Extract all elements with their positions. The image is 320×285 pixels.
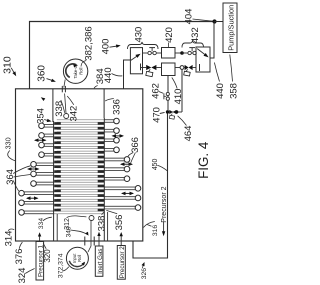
svg-text:Precursor 2: Precursor 2 xyxy=(161,186,168,222)
svg-text:340: 340 xyxy=(65,226,72,237)
svg-text:342: 342 xyxy=(68,106,79,122)
svg-text:430: 430 xyxy=(133,27,144,43)
svg-text:440: 440 xyxy=(215,83,226,99)
svg-text:450: 450 xyxy=(152,158,159,170)
svg-text:372,374: 372,374 xyxy=(57,253,64,278)
svg-text:316: 316 xyxy=(152,225,159,237)
svg-text:Precursor 2: Precursor 2 xyxy=(119,246,126,279)
svg-text:338: 338 xyxy=(97,216,108,232)
svg-text:354: 354 xyxy=(36,108,47,124)
svg-text:462: 462 xyxy=(151,83,162,99)
svg-text:382,386: 382,386 xyxy=(84,26,95,60)
svg-text:376: 376 xyxy=(14,249,25,265)
svg-text:Roll: Roll xyxy=(77,255,82,262)
svg-text:360: 360 xyxy=(37,65,48,82)
svg-text:400: 400 xyxy=(101,39,112,55)
svg-text:464: 464 xyxy=(183,126,194,142)
svg-text:310: 310 xyxy=(2,56,14,74)
svg-text:366: 366 xyxy=(130,137,141,153)
svg-text:358: 358 xyxy=(229,83,240,99)
svg-text:324: 324 xyxy=(17,268,28,284)
svg-text:320: 320 xyxy=(43,249,52,263)
svg-text:Pump/Suction: Pump/Suction xyxy=(226,5,235,51)
svg-text:FIG. 4: FIG. 4 xyxy=(196,141,211,179)
svg-text:Inert Gas: Inert Gas xyxy=(97,248,104,273)
svg-text:356: 356 xyxy=(114,215,125,231)
svg-text:420: 420 xyxy=(164,27,175,43)
svg-text:330: 330 xyxy=(3,137,12,149)
svg-text:334: 334 xyxy=(38,218,45,229)
svg-text:314: 314 xyxy=(3,231,14,247)
svg-text:410: 410 xyxy=(173,89,184,105)
svg-text:336: 336 xyxy=(112,99,123,115)
svg-text:Roll: Roll xyxy=(79,68,84,75)
svg-text:432: 432 xyxy=(190,27,201,43)
svg-text:326: 326 xyxy=(141,268,148,280)
svg-text:Input: Input xyxy=(72,253,77,263)
svg-text:470: 470 xyxy=(152,107,163,123)
svg-text:440: 440 xyxy=(103,67,114,83)
svg-text:404: 404 xyxy=(184,9,195,25)
